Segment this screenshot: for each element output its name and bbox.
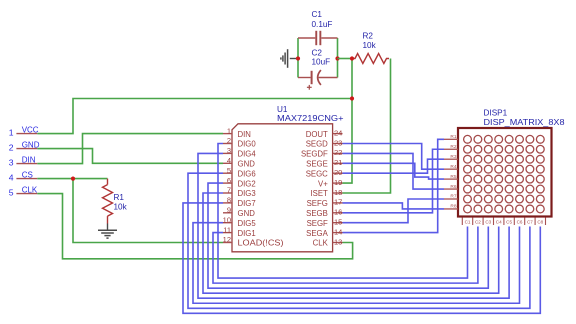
pin 5 DIG6: [223, 166, 256, 179]
svg-text:1: 1: [227, 126, 231, 135]
svg-text:DIG7: DIG7: [238, 199, 256, 208]
svg-text:DIG1: DIG1: [238, 229, 256, 238]
terminal CLK pin 5: [9, 186, 38, 198]
wire SEGD to R4: [343, 144, 445, 170]
svg-text:R2: R2: [450, 144, 456, 150]
svg-text:ISET: ISET: [310, 189, 328, 198]
svg-text:2: 2: [9, 143, 14, 153]
pin 21 SEGE: [306, 158, 342, 168]
svg-text:DISP1: DISP1: [484, 109, 508, 118]
terminal GND pin 2: [9, 141, 40, 153]
svg-text:R1: R1: [114, 193, 125, 202]
wire DIN net: [37, 134, 223, 164]
wire SEGF to R7: [343, 199, 445, 223]
svg-text:C8: C8: [537, 220, 543, 225]
svg-text:18: 18: [334, 188, 342, 197]
svg-text:C5: C5: [506, 220, 512, 225]
node V+ VCC junction: [350, 96, 354, 100]
pin 11 DIG1: [223, 225, 256, 238]
pin 14 SEGA: [306, 227, 342, 237]
pin 1 DIN: [223, 126, 251, 139]
pin 12 LOAD(!CS): [223, 235, 284, 248]
svg-text:R1: R1: [450, 134, 456, 140]
pin 7 DIG3: [223, 186, 256, 199]
svg-text:21: 21: [334, 158, 342, 167]
svg-text:VCC: VCC: [22, 126, 39, 135]
wire GND net: [37, 149, 223, 164]
wire DIG0 pin 2 to column C1: [218, 144, 468, 279]
svg-text:R5: R5: [450, 174, 456, 180]
svg-text:DIN: DIN: [238, 130, 251, 139]
pin 16 SEGB: [306, 208, 342, 218]
svg-text:DOUT: DOUT: [306, 130, 328, 139]
ground below R1: [98, 224, 117, 239]
node R2 left junction: [350, 56, 354, 60]
svg-text:LOAD(!CS): LOAD(!CS): [238, 239, 284, 248]
svg-text:SEGC: SEGC: [306, 169, 328, 178]
IC U1 MAX7219CNG+ body: [232, 124, 333, 252]
svg-text:10k: 10k: [114, 203, 128, 212]
wire CS net to R1 and LOAD: [37, 179, 223, 243]
svg-text:3: 3: [227, 146, 231, 155]
wire SEFG to R8: [343, 203, 445, 209]
pin 13 CLK: [313, 237, 343, 247]
pin 9 GND: [223, 206, 255, 219]
svg-text:12: 12: [223, 235, 231, 244]
wire DIG2 pin 6 to column C3: [208, 183, 488, 288]
svg-text:V+: V+: [318, 179, 328, 188]
svg-text:5: 5: [9, 188, 14, 198]
svg-text:10: 10: [223, 215, 231, 224]
svg-text:R8: R8: [450, 204, 456, 210]
svg-text:SEGD: SEGD: [306, 140, 328, 149]
pin 23 SEGD: [306, 138, 343, 148]
svg-text:5: 5: [227, 166, 231, 175]
terminal VCC pin 1: [9, 126, 39, 138]
pin 8 DIG7: [223, 196, 256, 209]
display DISP1 box: [458, 128, 552, 217]
svg-text:23: 23: [334, 138, 342, 147]
svg-text:17: 17: [334, 198, 342, 207]
svg-text:8: 8: [227, 196, 231, 205]
svg-text:15: 15: [334, 218, 342, 227]
svg-text:19: 19: [334, 178, 342, 187]
svg-text:0.1uF: 0.1uF: [312, 20, 333, 29]
display LED dot grid: [464, 135, 545, 212]
svg-text:2: 2: [227, 136, 231, 145]
label R2 value: [363, 31, 377, 50]
svg-text:DIG5: DIG5: [238, 219, 257, 228]
pin 20 SEGC: [306, 168, 343, 178]
wire VCC net: [37, 99, 352, 134]
svg-text:DIG6: DIG6: [238, 169, 256, 178]
pin 2 DIG0: [223, 136, 256, 149]
svg-text:R6: R6: [450, 184, 456, 190]
svg-text:C6: C6: [517, 220, 523, 225]
svg-text:DISP_MATRIX_8X8: DISP_MATRIX_8X8: [484, 118, 565, 127]
svg-text:16: 16: [334, 208, 342, 217]
pin 24 DOUT: [306, 128, 343, 138]
label DISP1: [484, 109, 565, 127]
svg-text:CLK: CLK: [22, 186, 38, 195]
terminal DIN pin 3: [9, 156, 38, 168]
pin 6 DIG2: [223, 176, 256, 189]
svg-text:10k: 10k: [363, 41, 377, 50]
wire cap loop left: [297, 38, 299, 78]
svg-text:10uF: 10uF: [312, 58, 331, 67]
node cap left junction: [296, 56, 300, 60]
svg-text:CS: CS: [22, 171, 33, 180]
pin 22 SEGDF: [301, 148, 343, 158]
svg-text:SEGDF: SEGDF: [301, 150, 328, 159]
svg-text:R3: R3: [450, 154, 456, 160]
svg-text:C2: C2: [475, 220, 481, 225]
svg-text:22: 22: [334, 148, 342, 157]
wire SEGDF to R6: [343, 153, 445, 189]
label R1 value: [114, 193, 128, 212]
svg-text:DIG4: DIG4: [238, 150, 257, 159]
svg-text:SEGE: SEGE: [306, 160, 328, 169]
wire V+ net: [343, 59, 353, 184]
svg-text:20: 20: [334, 168, 342, 177]
svg-text:C1: C1: [312, 10, 323, 19]
svg-text:C3: C3: [485, 220, 491, 225]
svg-text:SEFG: SEFG: [307, 199, 328, 208]
svg-text:4: 4: [227, 156, 231, 165]
wire CLK net: [37, 194, 352, 259]
svg-text:R7: R7: [450, 194, 456, 200]
terminal CS pin 4: [9, 171, 38, 183]
svg-text:9: 9: [227, 206, 231, 215]
pin 10 DIG5: [223, 215, 257, 228]
svg-text:C1: C1: [465, 220, 471, 225]
wire DIG5 pin 10 to column C6: [193, 223, 520, 304]
svg-text:DIN: DIN: [22, 156, 36, 165]
wire DIG4 pin 3 to column C5: [198, 153, 509, 298]
wire cap loop right: [337, 38, 339, 78]
svg-text:13: 13: [334, 237, 342, 246]
svg-text:C7: C7: [527, 220, 533, 225]
svg-text:7: 7: [227, 186, 231, 195]
wire SEGB to R2: [343, 149, 445, 213]
wire DIG3 pin 7 to column C4: [203, 193, 499, 293]
wire SEGA to R1: [343, 139, 445, 232]
label C2: [312, 48, 331, 66]
svg-text:GND: GND: [22, 141, 40, 150]
svg-text:MAX7219CNG+: MAX7219CNG+: [277, 114, 344, 123]
node cap right junction: [335, 56, 339, 60]
pin 4 GND: [223, 156, 255, 169]
svg-text:R4: R4: [450, 164, 456, 170]
pin 18 ISET: [310, 188, 342, 198]
svg-text:SEGB: SEGB: [306, 209, 328, 218]
svg-text:DIG2: DIG2: [238, 179, 256, 188]
capacitor C2 electrolytic: [298, 70, 338, 90]
resistor R1: [103, 179, 113, 224]
svg-text:SEGF: SEGF: [307, 219, 328, 228]
svg-text:SEGA: SEGA: [306, 229, 328, 238]
svg-text:CLK: CLK: [313, 239, 329, 248]
label U1: [277, 105, 344, 123]
svg-text:GND: GND: [238, 209, 256, 218]
svg-text:24: 24: [334, 128, 342, 137]
display column pins C1-C8: [462, 218, 545, 226]
svg-text:4: 4: [9, 173, 14, 183]
svg-text:GND: GND: [238, 160, 256, 169]
wire DIG1 pin 11 to column C2: [213, 227, 478, 284]
display row pins R1-R8: [444, 134, 458, 210]
svg-text:1: 1: [9, 128, 14, 138]
svg-text:U1: U1: [277, 105, 288, 114]
svg-text:DIG0: DIG0: [238, 140, 257, 149]
svg-text:C4: C4: [496, 220, 502, 225]
pin 15 SEGF: [307, 218, 343, 228]
svg-text:6: 6: [227, 176, 231, 185]
label C1: [312, 10, 333, 29]
capacitor C1: [298, 31, 338, 45]
pin 19 V+: [318, 178, 342, 188]
wire SEGC to R3: [343, 159, 445, 173]
resistor R2: [352, 54, 389, 64]
wire DIG7 pin 8 to column C8: [183, 203, 540, 313]
svg-text:DIG3: DIG3: [238, 189, 256, 198]
ground at caps: [281, 49, 298, 68]
svg-text:14: 14: [334, 227, 342, 236]
pin 17 SEFG: [307, 198, 343, 208]
wire DIG6 pin 5 to column C7: [188, 173, 530, 308]
svg-text:C2: C2: [312, 48, 323, 57]
svg-text:R2: R2: [363, 31, 374, 40]
node CS junction: [71, 177, 75, 181]
wire ISET net: [343, 59, 391, 194]
pin 3 DIG4: [223, 146, 256, 159]
wire SEGE to R5: [343, 163, 445, 179]
wire caps to R2: [338, 58, 353, 60]
svg-text:11: 11: [223, 225, 231, 234]
svg-text:3: 3: [9, 158, 14, 168]
